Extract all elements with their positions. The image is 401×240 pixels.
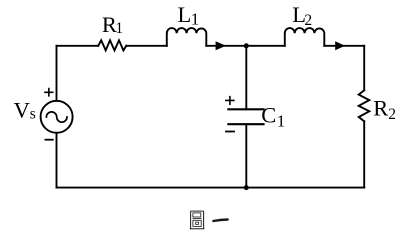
inductor L1: [167, 28, 207, 46]
wire left upper (source to top corner): [56, 46, 58, 101]
svg-text:C: C: [261, 103, 276, 128]
svg-text:1: 1: [277, 111, 286, 130]
capacitor C1 top plate: [228, 108, 263, 110]
svg-text:V: V: [14, 97, 30, 122]
resistor R1: [98, 40, 126, 50]
wire bottom: [57, 187, 365, 189]
svg-text:R: R: [373, 95, 388, 120]
node A junction dot: [244, 43, 249, 48]
wire right side lower: [363, 121, 365, 187]
source minus sign: [45, 139, 54, 141]
svg-text:1: 1: [191, 9, 200, 28]
current arrow 1: [216, 41, 226, 50]
source V_s circle: [41, 101, 73, 133]
svg-text:s: s: [30, 106, 36, 123]
inductor L2: [285, 28, 325, 46]
svg-text:1: 1: [115, 20, 123, 37]
wire node A to L2: [246, 45, 284, 47]
wire R1 to L1: [126, 45, 167, 47]
source sine wave: [46, 112, 67, 122]
wire capacitor branch lower: [245, 124, 247, 187]
current arrow 2: [335, 41, 345, 50]
wire L1 to node A: [206, 45, 246, 47]
capacitor minus sign: [225, 131, 235, 133]
resistor R2: [359, 90, 370, 121]
capacitor plus sign: [225, 96, 235, 105]
wire right side upper: [363, 46, 365, 91]
wire top-left horizontal: [57, 45, 99, 47]
svg-text:L: L: [178, 2, 192, 27]
caption character 一 (one): [213, 220, 227, 222]
source plus sign: [44, 88, 53, 97]
bottom junction dot: [244, 185, 249, 190]
svg-text:2: 2: [304, 12, 312, 29]
wire left lower: [56, 133, 58, 188]
capacitor C1 bottom plate: [228, 123, 263, 125]
wire L2 to top-right corner: [324, 45, 364, 47]
svg-text:2: 2: [388, 106, 396, 123]
caption character 圖 (Figure): [190, 211, 205, 229]
wire capacitor branch upper: [245, 46, 247, 110]
